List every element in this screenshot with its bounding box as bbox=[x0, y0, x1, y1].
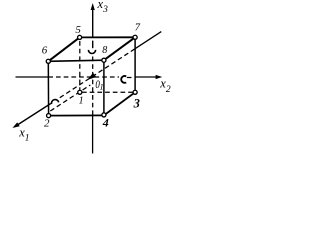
wire: cube edge 7-8 top right oblique bbox=[104, 37, 135, 60]
node: vertex 2 circle bbox=[47, 114, 51, 118]
svg-text:1: 1 bbox=[100, 82, 104, 91]
wire: x3 axis solid top segment bbox=[92, 6, 94, 38]
node: vertex 3 circle bbox=[133, 90, 137, 94]
node: rotation cup marker on x3 at top face centre bbox=[88, 50, 95, 54]
node: vertex 5 circle bbox=[78, 35, 82, 39]
svg-text:4: 4 bbox=[102, 116, 109, 130]
wire: cube edge 6-8 top front bbox=[48, 60, 104, 61]
svg-text:2: 2 bbox=[44, 117, 50, 129]
wire: cube edge 7-3 right vertical bbox=[134, 37, 136, 92]
wire: cube edge 8-4 middle vertical bbox=[103, 60, 105, 115]
wire: cube edge 6-2 left vertical bbox=[47, 61, 49, 115]
wire: hidden edge 2-1 dashed (runs through vertex 1, parallel to x1) bbox=[50, 85, 90, 111]
node: rotation cup marker on x1 near front face bbox=[51, 100, 58, 105]
node: vertex 6 circle bbox=[46, 59, 50, 63]
node: vertex 4 circle bbox=[102, 113, 106, 117]
svg-text:3: 3 bbox=[133, 96, 140, 110]
svg-text:1: 1 bbox=[79, 96, 84, 107]
node: x1 axis arrowhead bbox=[13, 122, 20, 128]
node: x2 axis arrowhead bbox=[156, 75, 163, 79]
wire: hidden edge 1-3 dashed bbox=[82, 91, 133, 93]
wire: cube edge 5-7 top back bbox=[80, 36, 136, 38]
node: x3 axis arrowhead bbox=[91, 3, 95, 10]
wire: x2 axis solid left segment bbox=[16, 76, 49, 78]
node: vertex 1 circle (hidden) bbox=[78, 90, 82, 94]
wire: x1 axis solid lower-left segment bbox=[14, 104, 51, 128]
wire: cube edge 2-4 bottom front bbox=[49, 114, 104, 116]
svg-text:7: 7 bbox=[135, 22, 141, 33]
wire: x1 axis dashed hidden segment bbox=[60, 49, 135, 98]
node: vertex 8 circle bbox=[102, 58, 106, 62]
wire: x2 axis dashed hidden segment right of C bbox=[127, 77, 135, 79]
wire: x1 axis solid upper-right segment beyond vertex 7 bbox=[135, 32, 161, 49]
wire: hidden edge 1-5 dashed bbox=[79, 41, 81, 90]
node: vertex 7 circle bbox=[133, 35, 137, 39]
wire: cube edge 4-3 bottom right oblique bbox=[104, 92, 135, 115]
svg-text:6: 6 bbox=[42, 44, 48, 56]
svg-text:8: 8 bbox=[102, 45, 107, 56]
wire: x3 axis dashed hidden segment bbox=[92, 57, 94, 116]
wire: x2 axis solid right segment bbox=[135, 76, 158, 78]
wire: x3 axis solid bottom segment below cube bbox=[92, 116, 94, 154]
wire: cube edge 5-6 top left oblique bbox=[48, 37, 79, 61]
wire: x2 axis dashed hidden segment left of C bbox=[48, 76, 119, 78]
wire: x3 axis stub inside top face bbox=[92, 41, 94, 49]
svg-text:5: 5 bbox=[75, 24, 81, 36]
node: central arrowhead on x1 at origin bbox=[88, 73, 97, 80]
node: C marker on x2 axis (face centre) bbox=[121, 76, 126, 83]
